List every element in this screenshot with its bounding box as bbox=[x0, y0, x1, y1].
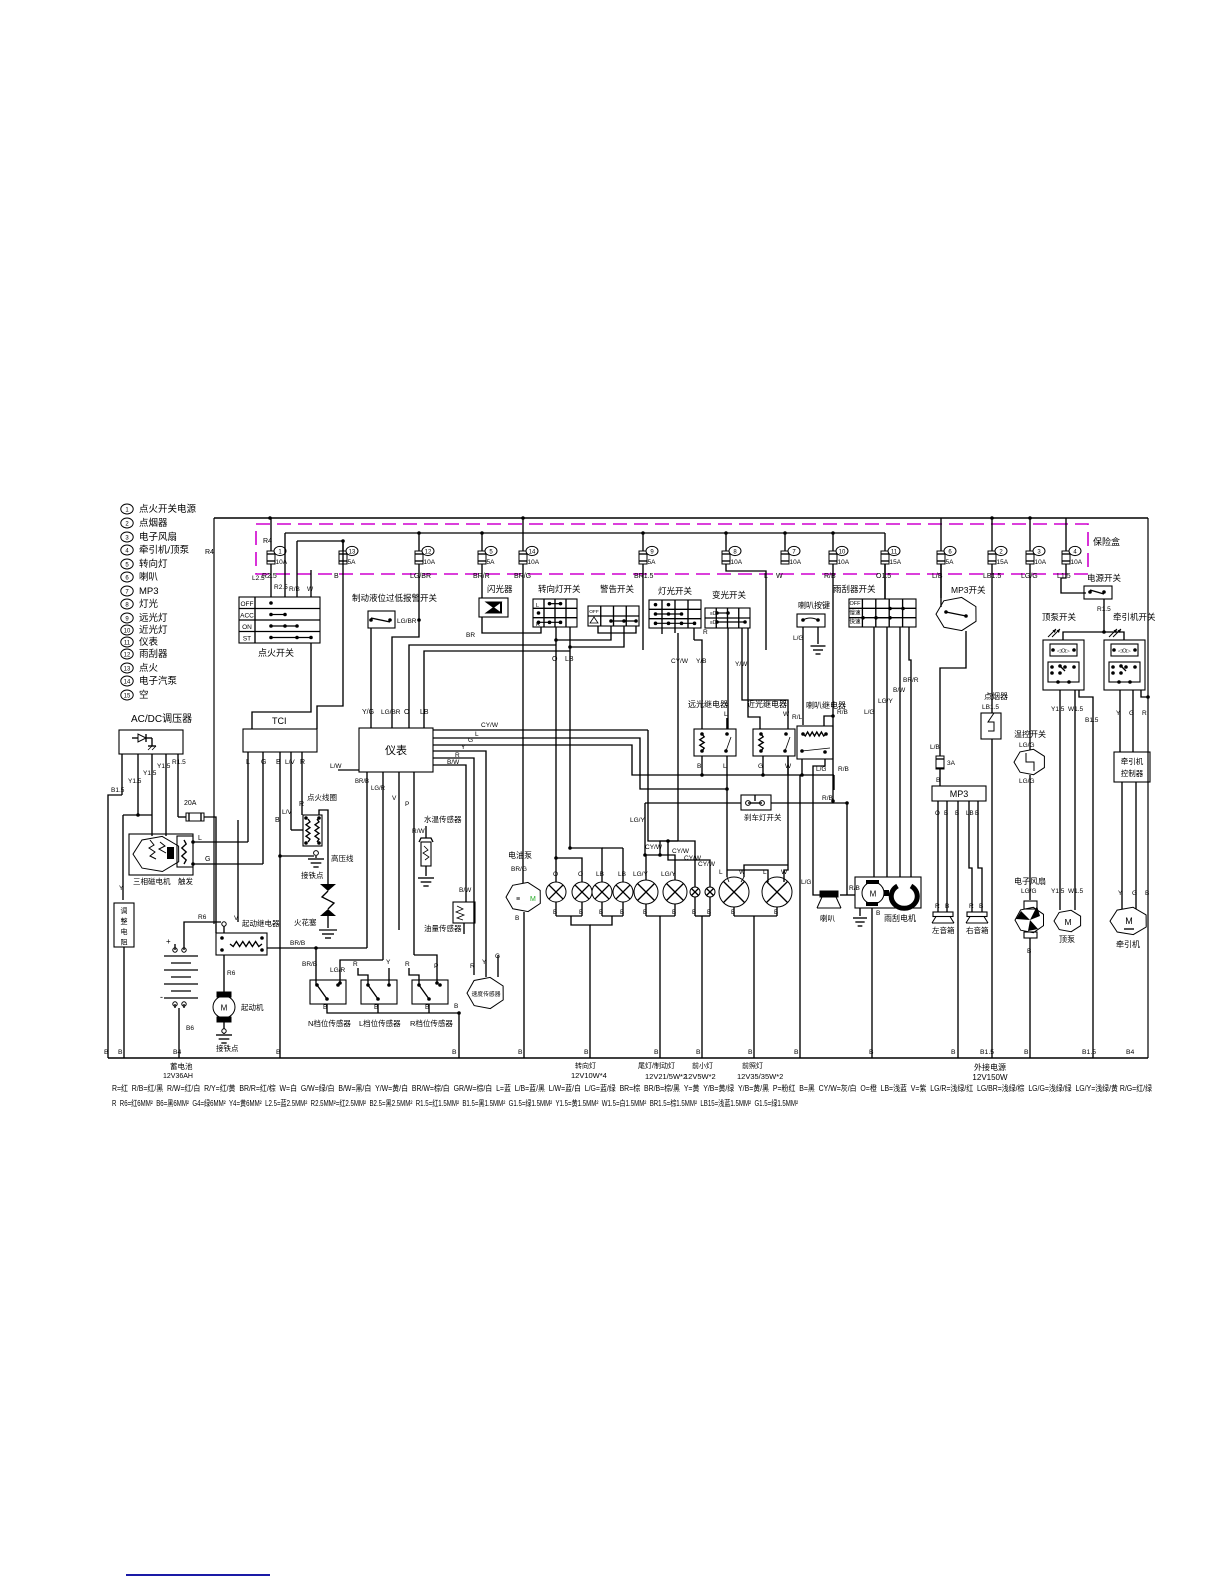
svg-text:5A: 5A bbox=[946, 559, 955, 566]
svg-text:喇叭按键: 喇叭按键 bbox=[798, 600, 830, 610]
svg-text:CY/W: CY/W bbox=[671, 658, 689, 665]
svg-text:调: 调 bbox=[121, 906, 128, 915]
svg-text:B: B bbox=[869, 1049, 874, 1056]
svg-text:L/G: L/G bbox=[816, 766, 826, 773]
svg-text:LG/BR: LG/BR bbox=[397, 618, 417, 625]
svg-text:B1.5: B1.5 bbox=[1085, 717, 1099, 724]
svg-text:LB: LB bbox=[565, 656, 574, 663]
svg-text:20A: 20A bbox=[184, 800, 197, 807]
svg-text:B/W: B/W bbox=[893, 687, 906, 694]
svg-text:B: B bbox=[515, 915, 519, 922]
svg-text:灯光: 灯光 bbox=[139, 598, 159, 610]
svg-text:N档位传感器: N档位传感器 bbox=[308, 1018, 351, 1028]
svg-text:M: M bbox=[870, 890, 877, 899]
svg-text:Y/G: Y/G bbox=[362, 709, 374, 716]
svg-text:R1.5: R1.5 bbox=[172, 759, 186, 766]
svg-text:10A: 10A bbox=[790, 559, 802, 566]
svg-text:喇叭: 喇叭 bbox=[820, 913, 835, 923]
svg-text:灯光开关: 灯光开关 bbox=[658, 586, 693, 596]
svg-text:R/L: R/L bbox=[792, 714, 803, 721]
svg-text:点火开关: 点火开关 bbox=[258, 647, 294, 658]
svg-text:G: G bbox=[468, 737, 473, 744]
svg-text:R4: R4 bbox=[205, 549, 214, 556]
svg-text:W: W bbox=[307, 586, 314, 593]
svg-text:顶泵: 顶泵 bbox=[1059, 935, 1075, 944]
svg-text:CY/W: CY/W bbox=[481, 722, 499, 729]
svg-text:B: B bbox=[275, 817, 280, 824]
svg-text:R档位传感器: R档位传感器 bbox=[410, 1018, 453, 1028]
svg-text:L/B: L/B bbox=[930, 744, 940, 751]
svg-text:10: 10 bbox=[124, 629, 131, 635]
svg-text:电油泵: 电油泵 bbox=[508, 850, 532, 860]
svg-text:空: 空 bbox=[139, 689, 149, 701]
svg-text:牵引机: 牵引机 bbox=[1121, 756, 1144, 766]
svg-text:R: R bbox=[353, 961, 358, 968]
svg-text:10A: 10A bbox=[1071, 559, 1083, 566]
svg-text:L/V: L/V bbox=[285, 759, 295, 766]
svg-text:L: L bbox=[198, 835, 202, 842]
svg-text:O: O bbox=[404, 709, 410, 716]
svg-text:12V5W*2: 12V5W*2 bbox=[684, 1072, 716, 1081]
svg-text:CY/W: CY/W bbox=[672, 848, 690, 855]
svg-text:点火线圈: 点火线圈 bbox=[307, 792, 337, 802]
svg-text:B: B bbox=[697, 763, 701, 770]
svg-text:B: B bbox=[951, 1049, 956, 1056]
svg-text:B: B bbox=[104, 1049, 109, 1056]
svg-text:13: 13 bbox=[124, 667, 131, 673]
svg-text:LG/Y: LG/Y bbox=[630, 817, 645, 824]
svg-text:O: O bbox=[552, 656, 558, 663]
svg-text:V: V bbox=[392, 795, 397, 802]
svg-text:B: B bbox=[1027, 948, 1031, 955]
svg-text:L档位传感器: L档位传感器 bbox=[359, 1018, 401, 1028]
svg-text:5A: 5A bbox=[487, 559, 496, 566]
svg-text:仪表: 仪表 bbox=[385, 743, 407, 757]
svg-text:转向灯开关: 转向灯开关 bbox=[538, 584, 581, 594]
svg-text:控制器: 控制器 bbox=[1121, 768, 1144, 778]
svg-text:远光灯: 远光灯 bbox=[139, 612, 168, 624]
svg-text:M: M bbox=[1125, 916, 1133, 926]
svg-text:R: R bbox=[299, 801, 304, 808]
svg-text:W1.5: W1.5 bbox=[1068, 706, 1084, 713]
svg-text:B: B bbox=[774, 909, 778, 916]
svg-text:B: B bbox=[118, 1049, 123, 1056]
svg-text:B: B bbox=[748, 1049, 753, 1056]
svg-text:B1.5: B1.5 bbox=[980, 1049, 994, 1056]
svg-text:BR/G: BR/G bbox=[511, 866, 527, 873]
svg-text:G: G bbox=[495, 953, 500, 960]
svg-text:R/B: R/B bbox=[837, 709, 848, 716]
svg-text:L: L bbox=[763, 869, 767, 876]
svg-text:R/B: R/B bbox=[822, 795, 833, 802]
svg-text:水温传感器: 水温传感器 bbox=[424, 814, 462, 824]
svg-text:B4: B4 bbox=[173, 1049, 182, 1056]
svg-text:R: R bbox=[405, 961, 410, 968]
svg-text:G: G bbox=[205, 856, 210, 863]
svg-text:12: 12 bbox=[425, 550, 432, 556]
svg-text:B: B bbox=[1145, 890, 1149, 897]
svg-text:保险盒: 保险盒 bbox=[1093, 536, 1120, 547]
svg-text:远光继电器: 远光继电器 bbox=[688, 699, 728, 709]
svg-text:10A: 10A bbox=[731, 559, 743, 566]
svg-text:OFF: OFF bbox=[589, 609, 599, 615]
svg-text:R1.5: R1.5 bbox=[1097, 606, 1111, 613]
svg-text:CY/W: CY/W bbox=[698, 861, 716, 868]
svg-text:R6: R6 bbox=[227, 970, 236, 977]
svg-text:B: B bbox=[1024, 1049, 1029, 1056]
svg-text:Y1.5: Y1.5 bbox=[1051, 888, 1065, 895]
svg-text:MP3: MP3 bbox=[950, 789, 969, 799]
svg-text:尾灯/制动灯: 尾灯/制动灯 bbox=[638, 1061, 675, 1070]
svg-text:R2.5: R2.5 bbox=[274, 584, 288, 591]
svg-text:L1.5: L1.5 bbox=[1057, 573, 1071, 580]
svg-text:B: B bbox=[454, 1003, 458, 1010]
svg-text:11: 11 bbox=[124, 641, 131, 647]
svg-text:LG/BR: LG/BR bbox=[381, 709, 401, 716]
svg-text:G: G bbox=[1129, 710, 1134, 717]
svg-text:B/W: B/W bbox=[447, 759, 460, 766]
svg-text:O: O bbox=[578, 871, 583, 878]
svg-text:L/W: L/W bbox=[330, 763, 342, 770]
svg-text:W: W bbox=[739, 869, 746, 876]
svg-text:P: P bbox=[434, 963, 438, 970]
svg-text:接铁点: 接铁点 bbox=[216, 1043, 239, 1053]
svg-text:LG/R: LG/R bbox=[371, 786, 386, 792]
svg-text:MP3开关: MP3开关 bbox=[951, 585, 986, 595]
svg-text:R: R bbox=[969, 903, 974, 910]
svg-text:M: M bbox=[530, 896, 536, 903]
svg-text:B: B bbox=[654, 1049, 659, 1056]
svg-text:电子风扇: 电子风扇 bbox=[139, 531, 177, 543]
svg-text:警告开关: 警告开关 bbox=[600, 584, 635, 594]
svg-text:≡: ≡ bbox=[516, 896, 520, 903]
svg-text:BR/B: BR/B bbox=[290, 940, 305, 947]
svg-text:B: B bbox=[731, 909, 735, 916]
svg-text:BR/R: BR/R bbox=[903, 677, 919, 684]
svg-text:G: G bbox=[758, 763, 763, 770]
svg-text:B: B bbox=[696, 1049, 701, 1056]
svg-text:B: B bbox=[276, 1049, 281, 1056]
svg-text:B: B bbox=[672, 909, 676, 916]
svg-text:转向灯: 转向灯 bbox=[575, 1061, 596, 1070]
svg-text:Y: Y bbox=[482, 959, 487, 966]
svg-text:阻: 阻 bbox=[121, 938, 128, 947]
svg-text:蓄电池: 蓄电池 bbox=[170, 1061, 193, 1071]
svg-text:牵引机/顶泵: 牵引机/顶泵 bbox=[139, 544, 190, 556]
svg-text:12V36AH: 12V36AH bbox=[163, 1073, 193, 1080]
svg-text:B4: B4 bbox=[1126, 1049, 1135, 1056]
svg-text:LB: LB bbox=[966, 810, 974, 817]
svg-text:仪表: 仪表 bbox=[139, 636, 159, 648]
svg-text:LG/Y: LG/Y bbox=[633, 871, 648, 878]
svg-text:12V150W: 12V150W bbox=[972, 1073, 1008, 1082]
svg-text:制动液位过低报警开关: 制动液位过低报警开关 bbox=[352, 593, 438, 603]
svg-text:LB1.5: LB1.5 bbox=[982, 704, 999, 711]
svg-text:刹车灯开关: 刹车灯开关 bbox=[744, 812, 782, 822]
svg-text:B: B bbox=[584, 1049, 589, 1056]
svg-text:ON: ON bbox=[242, 624, 252, 631]
svg-text:近光灯: 近光灯 bbox=[139, 624, 168, 636]
svg-text:LB: LB bbox=[618, 871, 626, 878]
svg-text:点烟器: 点烟器 bbox=[139, 517, 168, 529]
svg-text:油量传感器: 油量传感器 bbox=[424, 923, 462, 933]
svg-text:B: B bbox=[945, 903, 949, 910]
svg-text:点火: 点火 bbox=[139, 663, 159, 674]
svg-text:B: B bbox=[643, 909, 647, 916]
svg-text:12V21/5W*2: 12V21/5W*2 bbox=[645, 1072, 687, 1081]
svg-text:牵引机: 牵引机 bbox=[1116, 939, 1140, 949]
svg-text:LG/Y: LG/Y bbox=[878, 698, 893, 705]
svg-text:转向灯: 转向灯 bbox=[139, 558, 168, 570]
svg-text:整: 整 bbox=[121, 917, 128, 926]
svg-text:R: R bbox=[470, 963, 475, 970]
svg-text:L: L bbox=[536, 603, 539, 609]
svg-text:15A: 15A bbox=[890, 559, 902, 566]
svg-text:Y/B: Y/B bbox=[696, 658, 706, 665]
svg-text:+: + bbox=[166, 937, 171, 946]
svg-text:R/B: R/B bbox=[824, 573, 836, 580]
svg-text:O1.5: O1.5 bbox=[876, 573, 891, 580]
svg-text:10A: 10A bbox=[838, 559, 850, 566]
svg-text:电子风扇: 电子风扇 bbox=[1014, 876, 1046, 886]
svg-text:Y1.5: Y1.5 bbox=[143, 770, 157, 777]
svg-text:-: - bbox=[160, 992, 163, 1002]
svg-text:高压线: 高压线 bbox=[331, 853, 354, 863]
svg-text:Y: Y bbox=[386, 959, 391, 966]
svg-text:牵引机开关: 牵引机开关 bbox=[1113, 612, 1156, 622]
svg-text:Y/W: Y/W bbox=[735, 661, 748, 668]
svg-text:◁O▷: ◁O▷ bbox=[1057, 649, 1071, 655]
svg-text:O: O bbox=[553, 871, 558, 878]
svg-text:L: L bbox=[724, 711, 728, 718]
svg-text:P: P bbox=[405, 801, 409, 808]
svg-text:LB: LB bbox=[420, 709, 429, 716]
svg-text:外接电源: 外接电源 bbox=[974, 1062, 1006, 1072]
svg-text:AC/DC调压器: AC/DC调压器 bbox=[131, 713, 192, 725]
svg-text:BR: BR bbox=[466, 632, 475, 639]
svg-text:B: B bbox=[452, 1049, 457, 1056]
svg-text:R/B: R/B bbox=[849, 885, 860, 892]
svg-text:LG/G: LG/G bbox=[1019, 778, 1035, 785]
svg-text:L: L bbox=[723, 763, 727, 770]
svg-text:CY/W: CY/W bbox=[645, 844, 663, 851]
svg-text:G: G bbox=[261, 759, 266, 766]
svg-text:R/B: R/B bbox=[838, 766, 849, 773]
svg-text:右音箱: 右音箱 bbox=[966, 925, 989, 935]
svg-text:B: B bbox=[794, 1049, 799, 1056]
svg-text:L: L bbox=[475, 731, 479, 738]
svg-text:电源开关: 电源开关 bbox=[1087, 573, 1122, 583]
svg-text:L/G: L/G bbox=[864, 709, 874, 716]
svg-text:B: B bbox=[707, 909, 711, 916]
svg-text:三相磁电机: 三相磁电机 bbox=[133, 876, 171, 886]
svg-text:R/W: R/W bbox=[412, 828, 426, 835]
svg-text:Y1.5: Y1.5 bbox=[157, 763, 171, 770]
svg-text:B1.5: B1.5 bbox=[1082, 1049, 1096, 1056]
svg-text:10A: 10A bbox=[424, 559, 436, 566]
svg-text:B: B bbox=[979, 903, 983, 910]
svg-text:Y1.5: Y1.5 bbox=[1051, 706, 1065, 713]
svg-text:Y: Y bbox=[119, 885, 124, 892]
svg-text:前照灯: 前照灯 bbox=[742, 1061, 763, 1070]
svg-text:R=红 R/B=红/黑 R/W=红/白 R/Y=红/黄: R=红 R/B=红/黑 R/W=红/白 R/Y=红/黄 BR/R=红/棕 W=白… bbox=[112, 1083, 1152, 1093]
svg-text:LG/G: LG/G bbox=[1019, 742, 1035, 749]
svg-text:点火开关电源: 点火开关电源 bbox=[139, 503, 197, 515]
svg-text:左音箱: 左音箱 bbox=[932, 925, 955, 935]
svg-text:15: 15 bbox=[124, 694, 131, 700]
svg-text:W: W bbox=[781, 869, 788, 876]
svg-text:L/G: L/G bbox=[793, 635, 803, 642]
svg-text:12: 12 bbox=[124, 653, 131, 659]
svg-text:10: 10 bbox=[839, 550, 846, 556]
svg-text:W1.5: W1.5 bbox=[1068, 888, 1084, 895]
svg-text:11: 11 bbox=[891, 550, 898, 556]
svg-text:慢速: 慢速 bbox=[849, 608, 861, 616]
svg-text:◁O▷: ◁O▷ bbox=[1118, 649, 1132, 655]
svg-text:速度传感器: 速度传感器 bbox=[472, 990, 501, 998]
svg-text:W: W bbox=[776, 573, 783, 580]
svg-text:Y1.5: Y1.5 bbox=[128, 778, 142, 785]
svg-text:电子汽泵: 电子汽泵 bbox=[139, 675, 178, 687]
svg-text:R/B: R/B bbox=[289, 586, 300, 593]
svg-text:R: R bbox=[935, 903, 940, 910]
svg-text:L/G: L/G bbox=[801, 879, 811, 886]
svg-text:13: 13 bbox=[349, 550, 356, 556]
svg-text:R: R bbox=[1142, 710, 1147, 717]
svg-text:B: B bbox=[620, 909, 624, 916]
svg-text:15A: 15A bbox=[997, 559, 1009, 566]
svg-text:顶泵开关: 顶泵开关 bbox=[1042, 612, 1077, 622]
svg-text:5A: 5A bbox=[348, 559, 357, 566]
svg-text:起动继电器: 起动继电器 bbox=[242, 918, 280, 928]
svg-text:BR/B: BR/B bbox=[355, 779, 369, 785]
svg-text:LG/G: LG/G bbox=[1021, 888, 1037, 895]
svg-text:10A: 10A bbox=[1035, 559, 1047, 566]
svg-text:14: 14 bbox=[529, 550, 536, 556]
svg-text:5A: 5A bbox=[648, 559, 657, 566]
svg-text:B6: B6 bbox=[186, 1025, 194, 1032]
svg-text:触发: 触发 bbox=[178, 876, 193, 886]
svg-text:BR1.5: BR1.5 bbox=[634, 573, 654, 580]
svg-text:M: M bbox=[221, 1004, 228, 1013]
svg-text:TCI: TCI bbox=[272, 716, 287, 726]
svg-text:12V10W*4: 12V10W*4 bbox=[571, 1071, 607, 1080]
svg-text:M: M bbox=[1064, 917, 1071, 927]
svg-text:LG/R: LG/R bbox=[330, 967, 345, 974]
svg-text:Y: Y bbox=[1116, 710, 1121, 717]
svg-text:闪光器: 闪光器 bbox=[487, 584, 513, 594]
svg-text:MP3: MP3 bbox=[139, 586, 159, 597]
svg-text:温控开关: 温控开关 bbox=[1014, 729, 1046, 739]
svg-text:LB: LB bbox=[596, 871, 604, 878]
svg-text:ST: ST bbox=[243, 636, 251, 643]
svg-text:R4: R4 bbox=[263, 538, 272, 545]
svg-text:电: 电 bbox=[121, 927, 128, 936]
svg-text:B: B bbox=[518, 1049, 523, 1056]
svg-text:B: B bbox=[599, 909, 603, 916]
svg-text:L: L bbox=[719, 869, 723, 876]
svg-text:W: W bbox=[783, 711, 790, 718]
svg-text:R: R bbox=[455, 752, 460, 759]
svg-text:B: B bbox=[692, 909, 696, 916]
svg-text:L: L bbox=[764, 573, 768, 580]
svg-text:接铁点: 接铁点 bbox=[301, 870, 324, 880]
svg-text:快速: 快速 bbox=[849, 618, 861, 626]
svg-text:近光继电器: 近光继电器 bbox=[747, 699, 787, 709]
svg-text:B1.5: B1.5 bbox=[111, 787, 125, 794]
svg-text:3A: 3A bbox=[947, 760, 956, 767]
svg-text:B: B bbox=[876, 910, 880, 917]
svg-text:LG/BR: LG/BR bbox=[410, 573, 431, 580]
svg-text:雨刮器开关: 雨刮器开关 bbox=[833, 584, 876, 594]
svg-text:B: B bbox=[553, 909, 557, 916]
svg-text:12V35/35W*2: 12V35/35W*2 bbox=[737, 1072, 783, 1081]
svg-text:喇叭: 喇叭 bbox=[139, 571, 159, 583]
svg-text:B: B bbox=[579, 909, 583, 916]
svg-text:火花塞: 火花塞 bbox=[294, 917, 317, 927]
svg-text:B/W: B/W bbox=[459, 887, 472, 894]
svg-text:变光开关: 变光开关 bbox=[712, 590, 747, 600]
svg-text:10A: 10A bbox=[276, 559, 288, 566]
svg-text:雨刮器: 雨刮器 bbox=[139, 648, 168, 660]
svg-text:R: R bbox=[703, 629, 708, 636]
svg-text:OFF: OFF bbox=[241, 601, 254, 608]
svg-text:ACC: ACC bbox=[240, 613, 254, 620]
svg-text:起动机: 起动机 bbox=[241, 1002, 264, 1012]
svg-text:10A: 10A bbox=[528, 559, 540, 566]
svg-text:G: G bbox=[1132, 890, 1137, 897]
svg-text:雨刮电机: 雨刮电机 bbox=[884, 913, 916, 923]
svg-text:点烟器: 点烟器 bbox=[984, 692, 1008, 701]
svg-text:14: 14 bbox=[124, 680, 131, 686]
svg-text:R6: R6 bbox=[198, 914, 207, 921]
svg-text:L2.5: L2.5 bbox=[252, 575, 265, 582]
svg-text:Y: Y bbox=[1118, 890, 1123, 897]
svg-text:R R6=红6MM² B6=黑6MM² G4=绿6MM: R R6=红6MM² B6=黑6MM² G4=绿6MM² Y4=黄6MM² L2… bbox=[112, 1098, 798, 1108]
svg-text:Y: Y bbox=[461, 744, 466, 751]
svg-text:LG/Y: LG/Y bbox=[661, 871, 676, 878]
svg-text:L/V: L/V bbox=[282, 809, 292, 816]
svg-text:B: B bbox=[334, 573, 339, 580]
svg-text:OFF: OFF bbox=[850, 601, 862, 607]
svg-text:BR/B: BR/B bbox=[302, 961, 317, 968]
svg-text:前小灯: 前小灯 bbox=[692, 1061, 713, 1070]
